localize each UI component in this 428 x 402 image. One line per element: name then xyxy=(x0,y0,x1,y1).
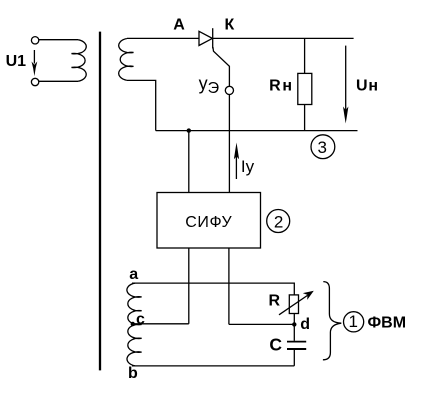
svg-text:U1: U1 xyxy=(6,53,27,70)
svg-text:3: 3 xyxy=(317,138,326,157)
svg-text:d: d xyxy=(300,316,310,333)
svg-text:К: К xyxy=(225,17,235,34)
svg-text:C: C xyxy=(269,335,282,355)
svg-text:b: b xyxy=(128,365,138,382)
svg-text:Rн: Rн xyxy=(269,77,294,94)
svg-text:2: 2 xyxy=(274,212,283,231)
svg-text:c: c xyxy=(136,311,145,328)
svg-text:СИФУ: СИФУ xyxy=(185,214,232,231)
svg-text:Iу: Iу xyxy=(241,157,255,176)
svg-text:А: А xyxy=(173,17,185,34)
svg-text:R: R xyxy=(269,293,281,310)
svg-text:a: a xyxy=(129,266,138,283)
svg-text:ФВМ: ФВМ xyxy=(368,314,407,331)
svg-text:1: 1 xyxy=(348,312,357,331)
svg-text:Uн: Uн xyxy=(356,77,379,94)
